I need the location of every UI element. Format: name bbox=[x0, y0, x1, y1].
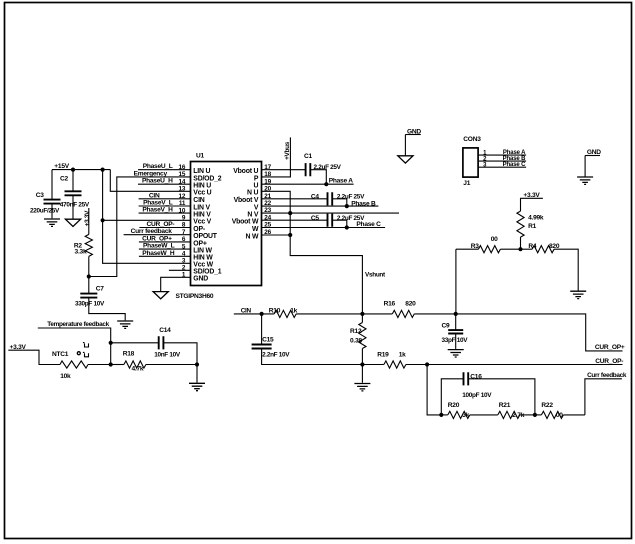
resistor R1 4.99k bbox=[517, 211, 544, 237]
svg-text:NTC1: NTC1 bbox=[52, 351, 69, 358]
wire pin11 PhaseV_L bbox=[139, 200, 191, 207]
connector J1 CON3 bbox=[463, 136, 481, 187]
node junction C14 branch bbox=[109, 341, 113, 345]
wire pin14 PhaseU_H bbox=[138, 178, 191, 185]
resistor R18 4.7k bbox=[111, 350, 197, 372]
wire Vcc bus to U1 pin 9 bbox=[103, 219, 191, 221]
svg-text:U1: U1 bbox=[196, 153, 205, 160]
svg-text:3.3k: 3.3k bbox=[75, 249, 87, 256]
svg-text:C7: C7 bbox=[96, 286, 105, 293]
node junction R12/R19/C15 bbox=[360, 362, 364, 366]
svg-text:C15: C15 bbox=[262, 337, 274, 344]
wire pin25 Phase C bbox=[262, 221, 386, 228]
capacitor C1 2.2uF 25V bbox=[262, 153, 342, 184]
wire pin5 PhaseW_L bbox=[139, 243, 191, 250]
power rail +3.3V (NTC) bbox=[8, 344, 60, 365]
node junction C5/Phase C bbox=[345, 225, 349, 229]
node junction R19/R20 branch bbox=[425, 362, 429, 366]
wire pin16 PhaseU_L bbox=[138, 163, 191, 170]
capacitor C7 330pF 10V bbox=[75, 277, 125, 321]
svg-text:Vboot V: Vboot V bbox=[234, 197, 259, 204]
svg-text:Vcc U: Vcc U bbox=[193, 190, 211, 197]
svg-text:U: U bbox=[254, 183, 259, 190]
wire pin23 N V bbox=[262, 212, 400, 214]
wire R19 node down to R20 bbox=[427, 365, 441, 415]
svg-text:00: 00 bbox=[491, 236, 498, 243]
capacitor C14 10nF 10V bbox=[111, 327, 197, 364]
svg-text:C2: C2 bbox=[60, 175, 69, 182]
svg-text:R21: R21 bbox=[499, 402, 511, 409]
svg-text:C16: C16 bbox=[470, 374, 482, 381]
node junction R18/C14 bbox=[195, 362, 199, 366]
svg-text:R18: R18 bbox=[123, 350, 135, 357]
svg-text:R22: R22 bbox=[541, 402, 553, 409]
U1 left pin numbers bbox=[178, 164, 185, 279]
ground triangle under C2 bbox=[65, 219, 80, 226]
wire pin12 CIN bbox=[139, 192, 191, 199]
svg-text:100pF 10V: 100pF 10V bbox=[462, 392, 492, 399]
wire +3.3V to R1 bbox=[520, 198, 522, 211]
svg-text:13: 13 bbox=[178, 186, 185, 193]
resistor R2 3.3k bbox=[74, 234, 93, 256]
svg-text:15: 15 bbox=[178, 171, 185, 178]
wire pin10 PhaseV_H bbox=[139, 207, 191, 214]
ground earth on C7 net bbox=[117, 321, 133, 328]
wire R1 to R3/R4 row bbox=[520, 237, 522, 249]
ground earth under R4 bbox=[570, 291, 586, 298]
svg-text:470nF 25V: 470nF 25V bbox=[60, 202, 90, 209]
svg-text:Phase A: Phase A bbox=[329, 178, 354, 185]
svg-text:R20: R20 bbox=[448, 402, 460, 409]
thermistor NTC1 10k bbox=[52, 343, 111, 381]
capacitor C3 220uF/25V bbox=[30, 170, 61, 219]
resistor R19 1k bbox=[362, 351, 427, 368]
resistor R21 2.7k bbox=[498, 402, 535, 419]
U1 left pin names bbox=[193, 168, 221, 283]
svg-text:W: W bbox=[252, 226, 259, 233]
wire pin1 GND bbox=[161, 277, 191, 291]
svg-text:HIN U: HIN U bbox=[193, 183, 211, 190]
svg-text:C5: C5 bbox=[311, 215, 320, 222]
svg-text:LIN W: LIN W bbox=[193, 248, 212, 255]
wire CUR_OP- to right edge bbox=[427, 358, 623, 365]
node junction N bus pin 26 bbox=[288, 233, 292, 237]
svg-text:HIN W: HIN W bbox=[193, 255, 213, 262]
svg-text:CUR_OP+: CUR_OP+ bbox=[595, 344, 625, 351]
node junction CIN/C15 bbox=[260, 312, 264, 316]
node junction R1/R3/R4 bbox=[518, 247, 522, 251]
svg-text:33pF 10V: 33pF 10V bbox=[442, 337, 469, 344]
wire R3 left leg down to C9 node bbox=[455, 249, 457, 314]
svg-text:OPOUT: OPOUT bbox=[193, 233, 217, 240]
svg-text:OP-: OP- bbox=[193, 226, 206, 233]
ground earth under C9 bbox=[448, 350, 464, 357]
ground earth under R12 bbox=[354, 384, 370, 391]
capacitor C5 2.2uF 25V bbox=[262, 214, 366, 228]
svg-text:Curr feedback: Curr feedback bbox=[587, 372, 627, 379]
U1 right pin numbers bbox=[264, 164, 271, 236]
wire Curr feedback to right edge bbox=[585, 372, 627, 415]
wire pin7 Curr feedback bbox=[124, 228, 191, 235]
svg-text:P: P bbox=[254, 175, 259, 182]
wire pin6 CUR_OP+ bbox=[139, 235, 191, 242]
wire pin4 PhaseW_H bbox=[139, 250, 191, 257]
wire pin8 CUR_OP- bbox=[139, 221, 190, 228]
ground triangle U1 pin1 bbox=[153, 292, 168, 299]
svg-text:C9: C9 bbox=[442, 323, 451, 330]
resistor R20 3k bbox=[441, 402, 498, 419]
svg-text:10k: 10k bbox=[60, 373, 71, 380]
svg-text:R1: R1 bbox=[528, 223, 537, 230]
svg-text:GND: GND bbox=[193, 276, 208, 283]
node junction C1/Phase A bbox=[324, 182, 328, 186]
capacitor C15 2.2nF 10V bbox=[252, 314, 363, 365]
node junction R21/R22/C16 right bbox=[533, 413, 537, 417]
node junction R2/C7/Emergency bbox=[87, 274, 91, 278]
node junction Vcc bus tap on +15V bbox=[101, 168, 105, 172]
wire CUR_OP+ run to right edge bbox=[456, 314, 625, 351]
capacitor C16 100pF 10V bbox=[441, 372, 535, 415]
wire Emergency net to U1 pin 15 bbox=[89, 177, 191, 277]
ground earth under C3 bbox=[44, 219, 60, 226]
svg-text:LIN V: LIN V bbox=[193, 204, 210, 211]
node junction R16/C9/CUR_OP+ bbox=[454, 312, 458, 316]
node junction R10/R16/R12/Vshunt bbox=[360, 312, 364, 316]
node junction C4/Phase B bbox=[345, 204, 349, 208]
wire Vcc bus (+15V to pins 9 and 3) bbox=[103, 170, 191, 264]
svg-text:+Vbus: +Vbus bbox=[284, 141, 291, 160]
power rail +15V bbox=[52, 163, 110, 170]
wire R2 to C7 junction bbox=[88, 256, 90, 276]
wire pin19 Phase A bbox=[262, 178, 354, 185]
wire J1 pin 2 Phase B bbox=[478, 156, 526, 163]
svg-text:LIN U: LIN U bbox=[193, 168, 210, 175]
wire pin2 SD/OD_1 stub bbox=[169, 269, 191, 271]
svg-text:CON3: CON3 bbox=[463, 136, 481, 143]
wire +Vbus to U1 pin 18 bbox=[262, 137, 291, 177]
svg-text:C14: C14 bbox=[159, 327, 171, 334]
wire pin26 N W bbox=[262, 234, 291, 236]
svg-text:N U: N U bbox=[247, 190, 258, 197]
svg-text:C1: C1 bbox=[304, 153, 313, 160]
svg-text:2.2nF 10V: 2.2nF 10V bbox=[262, 351, 290, 358]
resistor R12 0.38 bbox=[350, 314, 366, 365]
wire R12 node to ground bbox=[361, 365, 363, 383]
svg-text:+15V: +15V bbox=[54, 163, 69, 170]
svg-text:Vcc V: Vcc V bbox=[193, 219, 211, 226]
node junction C2 tap on +15V bbox=[71, 168, 75, 172]
resistor R3 00 bbox=[456, 236, 521, 253]
svg-text:CUR_OP-: CUR_OP- bbox=[595, 358, 623, 365]
svg-text:C3: C3 bbox=[36, 192, 45, 199]
svg-text:820: 820 bbox=[405, 301, 416, 308]
net label CIN bbox=[234, 308, 274, 315]
resistor R4 820 bbox=[521, 243, 579, 291]
ground symbol GND (triangle, top middle) bbox=[398, 128, 422, 163]
svg-text:Emergency: Emergency bbox=[134, 170, 168, 177]
svg-text:4.99k: 4.99k bbox=[528, 215, 544, 222]
svg-text:OP+: OP+ bbox=[193, 240, 207, 247]
node junction Vcc bus pin 9 bbox=[101, 218, 105, 222]
resistor R10 1k bbox=[269, 307, 363, 317]
svg-text:HIN V: HIN V bbox=[193, 212, 211, 219]
net label Temperature feedback bbox=[38, 321, 111, 343]
svg-text:SD/OD_1: SD/OD_1 bbox=[193, 269, 221, 276]
svg-text:10nF 10V: 10nF 10V bbox=[154, 351, 181, 358]
wire N bus (pins 20,23,26) to Vshunt bbox=[262, 191, 387, 314]
wire pin22 Phase B bbox=[262, 200, 379, 207]
svg-text:SD/OD_2: SD/OD_2 bbox=[193, 175, 221, 182]
ground earth bars top right bbox=[577, 177, 593, 184]
svg-text:J1: J1 bbox=[463, 180, 470, 187]
svg-text:Vshunt: Vshunt bbox=[365, 271, 386, 278]
ground earth under R18/C14 bbox=[189, 383, 205, 390]
wire temp feedback down bbox=[110, 343, 112, 365]
svg-text:N V: N V bbox=[247, 212, 258, 219]
svg-text:R16: R16 bbox=[384, 301, 396, 308]
svg-text:220uF/25V: 220uF/25V bbox=[30, 208, 60, 215]
svg-text:N W: N W bbox=[246, 233, 259, 240]
svg-text:1k: 1k bbox=[399, 351, 406, 358]
capacitor C2 470nF 25V bbox=[60, 170, 90, 220]
svg-text:R19: R19 bbox=[377, 351, 389, 358]
wire +15V to U1 pin 13 bbox=[110, 170, 190, 192]
svg-text:Temperature feedback: Temperature feedback bbox=[47, 321, 109, 328]
svg-text:STGIPN3H60: STGIPN3H60 bbox=[176, 293, 214, 300]
svg-text:CIN: CIN bbox=[193, 197, 204, 204]
svg-text:V: V bbox=[254, 205, 259, 212]
capacitor C9 33pF 10V bbox=[442, 314, 469, 349]
node junction NTC/R18 bbox=[109, 362, 113, 366]
svg-text:Vboot W: Vboot W bbox=[232, 219, 259, 226]
svg-text:Vcc W: Vcc W bbox=[193, 262, 213, 269]
svg-text:Vboot U: Vboot U bbox=[233, 168, 258, 175]
wire R18 node to ground bbox=[196, 365, 198, 383]
U1 right pin names bbox=[232, 168, 259, 240]
wire +3.3V stub to R2 bbox=[88, 208, 90, 234]
resistor R22 00 bbox=[535, 402, 585, 419]
resistor R16 820 bbox=[362, 301, 455, 318]
capacitor C4 2.2uF 25V bbox=[262, 192, 366, 206]
wire J1 pin 1 Phase A bbox=[478, 150, 526, 157]
op-amp/IPM U1 STGIPN3H60 bbox=[176, 153, 262, 300]
node junction N bus pin 23 bbox=[288, 211, 292, 215]
ground symbol GND (earth, top right) bbox=[585, 149, 601, 177]
svg-text:+3.3V: +3.3V bbox=[84, 210, 91, 226]
node junction R20/C16 left bbox=[439, 413, 443, 417]
power rail +3.3V (R1) bbox=[520, 192, 543, 199]
wire J1 pin 3 Phase C bbox=[478, 162, 526, 169]
svg-text:330pF 10V: 330pF 10V bbox=[75, 300, 105, 307]
